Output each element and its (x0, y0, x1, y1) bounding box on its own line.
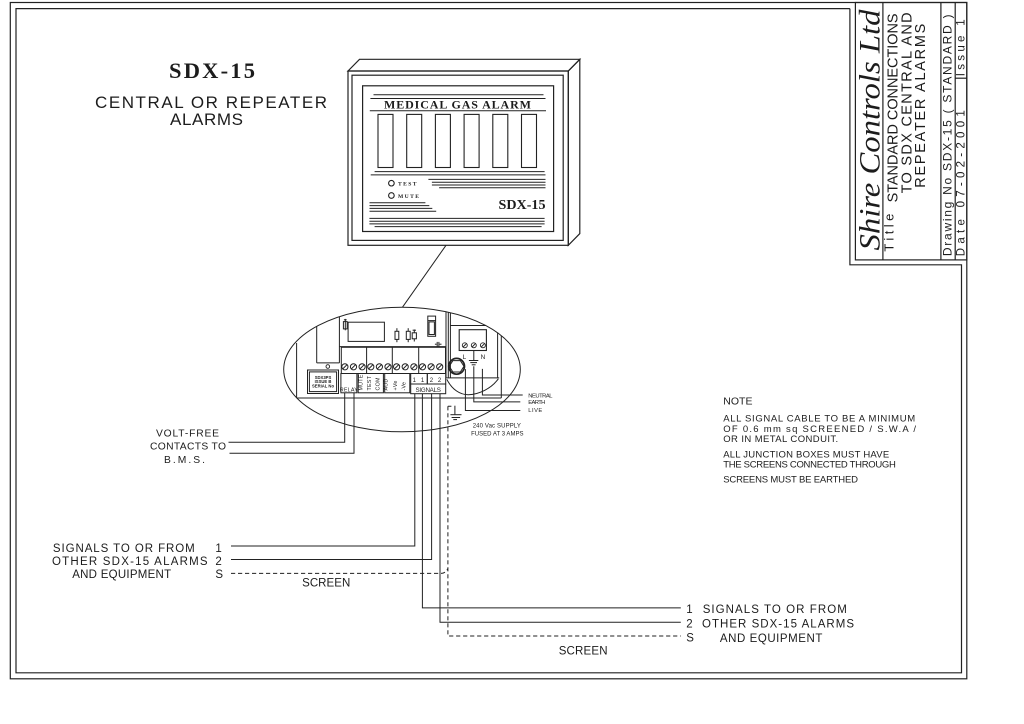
pcb notch left (316, 326, 318, 363)
wire signal 2 upper (231, 394, 432, 560)
svg-text:EARTH: EARTH (528, 400, 545, 406)
svg-text:S: S (686, 633, 694, 645)
pcb right edge double line (445, 312, 447, 378)
title block divider date/issue (955, 77, 967, 79)
svg-text:Title: Title (882, 214, 897, 252)
svg-text:MEDICAL GAS ALARM: MEDICAL GAS ALARM (384, 97, 531, 111)
test lamp (389, 180, 395, 186)
backplate bottom edge (297, 397, 502, 399)
svg-text:OTHER SDX-15 ALARMS: OTHER SDX-15 ALARMS (52, 556, 208, 568)
svg-text:MUTE: MUTE (358, 374, 364, 390)
display window 5 (493, 114, 508, 167)
svg-text:LIVE: LIVE (528, 408, 542, 414)
cable gland (449, 358, 465, 374)
capacitor C1 (395, 331, 399, 339)
capacitor C4 symbol (435, 343, 437, 345)
panel header line C (370, 110, 546, 112)
panel header line B (370, 98, 545, 100)
terminal screws row (342, 364, 443, 370)
svg-text:S: S (215, 569, 223, 581)
relay RL1 body (348, 322, 384, 341)
screen wire vertical dashed (448, 406, 681, 636)
title block divider col2/col3 (940, 3, 942, 260)
alarm panel bezel (363, 86, 554, 232)
svg-text:RELAY: RELAY (340, 388, 358, 394)
wire relay 1 to bms (229, 393, 345, 442)
svg-text:SCREEN: SCREEN (559, 646, 608, 658)
svg-text:AND EQUIPMENT: AND EQUIPMENT (72, 569, 171, 581)
alarm box front face (348, 71, 568, 245)
svg-text:2: 2 (215, 556, 221, 568)
svg-text:1: 1 (686, 604, 692, 616)
mute/test/com label box (358, 374, 383, 393)
svg-text:COM: COM (376, 377, 382, 390)
strip divider 1 (366, 347, 368, 373)
svg-text:SDX-15: SDX-15 (499, 198, 546, 213)
grille left line 2 (370, 205, 430, 207)
grille left line 3 (370, 207, 433, 209)
strip divider 3 (418, 347, 420, 373)
grille right line 4 (439, 187, 545, 189)
strip divider 2 (391, 347, 393, 373)
wire signal 1 lower (422, 394, 680, 608)
svg-text:REPEATER ALARMS: REPEATER ALARMS (913, 24, 929, 188)
svg-text:SERIAL No: SERIAL No (312, 384, 334, 389)
capacitor C2 (406, 331, 410, 339)
svg-text:OR IN METAL CONDUIT.: OR IN METAL CONDUIT. (723, 434, 838, 445)
title block divider col1/col2 (882, 3, 884, 260)
aud label box (385, 374, 410, 393)
svg-text:SIGNALS TO OR FROM: SIGNALS TO OR FROM (53, 543, 195, 555)
svg-text:Issue 1: Issue 1 (955, 19, 967, 76)
svg-text:MUTE: MUTE (398, 194, 420, 200)
alarm box top face (348, 59, 580, 71)
svg-text:2: 2 (686, 619, 692, 631)
grille bottom line 3 (369, 223, 544, 225)
svg-text:SIGNALS: SIGNALS (415, 387, 441, 394)
serial plate screw (326, 365, 330, 369)
mains earth symbol (469, 351, 478, 365)
svg-text:L: L (463, 354, 467, 361)
wire signal 1 upper (231, 394, 415, 546)
pointer line (403, 245, 447, 307)
terminal strip body (341, 347, 445, 373)
grille bottom line 1 (369, 217, 544, 219)
display window 6 (522, 114, 537, 167)
display window 2 (407, 114, 422, 167)
mains enclosure torn edge (447, 379, 499, 395)
svg-text:VOLT-FREE: VOLT-FREE (156, 428, 219, 439)
svg-text:-Ve: -Ve (402, 382, 408, 391)
grille right line 1 (428, 178, 545, 180)
title block outline (855, 3, 966, 260)
grille right line 3 (432, 184, 546, 186)
svg-text:OTHER SDX-15 ALARMS: OTHER SDX-15 ALARMS (702, 619, 854, 631)
svg-text:CONTACTS TO: CONTACTS TO (150, 442, 226, 453)
grille bottom line 4 (375, 226, 542, 228)
svg-text:TEST: TEST (367, 375, 373, 390)
display window 4 (464, 114, 479, 167)
grille left line 1 (370, 202, 426, 204)
mute lamp (389, 193, 395, 199)
fuse F1 body (343, 322, 347, 329)
svg-text:2: 2 (430, 378, 434, 384)
svg-text:Date 07-02-2001: Date 07-02-2001 (955, 110, 967, 256)
signals 1 1 cell (411, 374, 428, 385)
svg-text:1: 1 (413, 378, 417, 384)
grille left line 4 (370, 210, 437, 212)
wire signal 2 lower (440, 394, 681, 623)
screen earth symbol (450, 406, 461, 420)
signals 2 2 cell (427, 374, 445, 385)
svg-text:NEUTRAL: NEUTRAL (528, 393, 553, 399)
svg-text:AUD: AUD (384, 379, 390, 391)
grille bottom line 2 (369, 220, 544, 222)
svg-text:ALARMS: ALARMS (170, 110, 243, 129)
wire relay 2 to bms (230, 393, 355, 453)
svg-text:B.M.S.: B.M.S. (164, 455, 205, 466)
svg-text:SIGNALS TO OR FROM: SIGNALS TO OR FROM (703, 604, 847, 616)
svg-text:Drawing No SDX-15 ( STANDARD: Drawing No SDX-15 ( STANDARD ) (941, 15, 955, 257)
svg-text:SCREENS MUST BE EARTHED: SCREENS MUST BE EARTHED (723, 474, 858, 485)
svg-text:TEST: TEST (398, 182, 418, 188)
svg-text:1: 1 (215, 543, 221, 555)
panel mid line B (371, 174, 546, 176)
svg-text:1: 1 (421, 378, 425, 384)
wire earth (474, 366, 521, 402)
capacitor C3 (412, 333, 416, 339)
mains enclosure right wall double (497, 333, 499, 378)
svg-text:+Ve: +Ve (393, 380, 399, 390)
panel mid line A (375, 171, 545, 173)
pcb left edge (338, 317, 340, 363)
mains enclosure left wall (449, 313, 451, 378)
display window 3 (435, 114, 450, 167)
mains enclosure top edge (450, 325, 485, 327)
serial number plate (308, 370, 339, 394)
svg-text:NOTE: NOTE (723, 396, 752, 408)
alarm box inner face border (352, 75, 563, 240)
svg-text:SCREEN: SCREEN (302, 578, 350, 590)
panel header line A (374, 94, 544, 96)
svg-text:SDX-15: SDX-15 (169, 58, 255, 83)
wire live (465, 369, 520, 410)
relay label box (341, 374, 357, 393)
mains terminal block L N (459, 330, 486, 351)
svg-text:AND EQUIPMENT: AND EQUIPMENT (720, 633, 823, 645)
title block divider col3/col4 (954, 3, 956, 260)
svg-text:N: N (481, 354, 486, 361)
fuse F1 lead (344, 319, 346, 330)
backplate left edge (296, 343, 298, 398)
alarm box right face (568, 59, 580, 245)
signals label cell (411, 384, 446, 394)
fuse holder FS1 (428, 316, 436, 336)
svg-text:2: 2 (438, 378, 442, 384)
pcb notch bottom (317, 362, 340, 364)
screen wire upper dashed (231, 569, 448, 574)
display window 1 (378, 114, 393, 167)
wire neutral (482, 369, 522, 395)
grille right line 2 (432, 181, 546, 183)
mains enclosure bottom edge (446, 377, 499, 379)
svg-text:240 Vac SUPPLY: 240 Vac SUPPLY (473, 423, 521, 429)
mains screws (462, 343, 485, 348)
pcb bottom edge (339, 346, 446, 348)
detail ellipse (284, 307, 521, 432)
svg-text:FUSED AT 3 AMPS: FUSED AT 3 AMPS (471, 432, 523, 438)
svg-text:THE SCREENS CONNECTED THROUGH: THE SCREENS CONNECTED THROUGH (723, 460, 896, 471)
backplate right edge (500, 336, 502, 398)
